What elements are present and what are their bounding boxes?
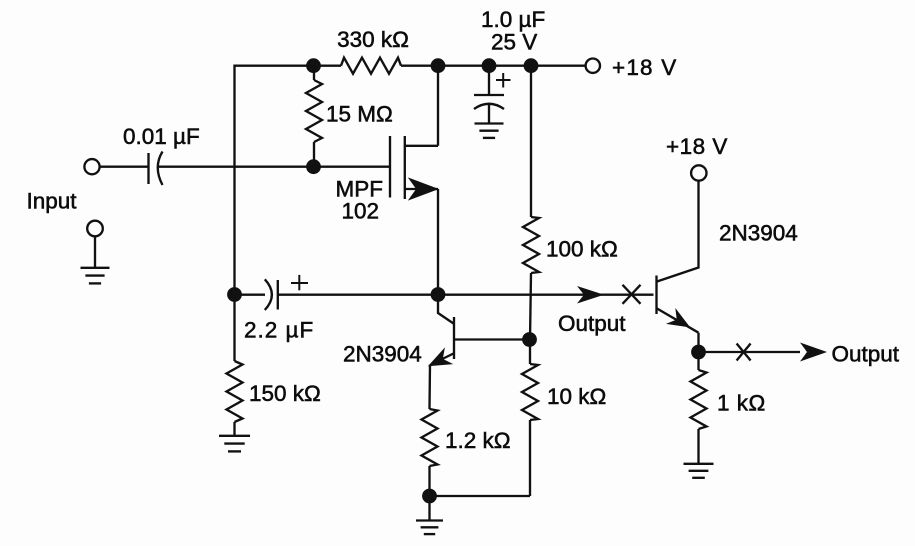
svg-text:10 kΩ: 10 kΩ [547, 384, 606, 409]
svg-text:1 kΩ: 1 kΩ [717, 391, 766, 416]
resistor 100 kΩ [523, 66, 539, 340]
label Output (first) [558, 311, 626, 336]
svg-text:150 kΩ: 150 kΩ [249, 381, 321, 406]
plus sign (2.2 µF polarity) [291, 275, 308, 290]
wire C1 to JFET gate [159, 166, 390, 168]
capacitor 1.0 µF 25 V (bypass) [474, 66, 504, 124]
label +18 V (top) [612, 55, 677, 80]
svg-text:2N3904: 2N3904 [343, 342, 422, 367]
wire bottom node (1.2k to 10k) [430, 495, 531, 497]
svg-text:330 kΩ: 330 kΩ [337, 27, 409, 52]
main output wire (y 295) [278, 294, 654, 296]
resistor 150 kΩ [227, 295, 243, 436]
wire JFET source down to node [437, 189, 439, 295]
resistor 10 kΩ [522, 340, 538, 497]
svg-text:Output: Output [832, 342, 900, 367]
capacitor 2.2 µF [241, 279, 278, 310]
transistor Q2 2N3904 [657, 181, 699, 352]
transistor Q1 2N3904 [431, 295, 528, 365]
+18V terminal (top) [586, 58, 600, 72]
node dot Q2 emitter [691, 345, 706, 360]
label 2.2 µF [244, 318, 314, 343]
JFET MPF102 [390, 136, 438, 199]
label 100 kΩ [546, 237, 618, 262]
svg-text:0.01 µF: 0.01 µF [123, 124, 200, 149]
input ground terminal [87, 221, 103, 268]
label 330 kΩ [337, 27, 409, 52]
node dot source/output [431, 287, 446, 302]
ground (bypass cap) [475, 124, 504, 138]
input terminal [84, 159, 99, 174]
svg-text:15 MΩ: 15 MΩ [326, 102, 393, 127]
ground (bottom node) [416, 496, 443, 534]
wire input to C1 [100, 166, 149, 168]
output arrow 1 [577, 286, 604, 304]
label 25 V [491, 30, 537, 55]
X mark 1 [623, 285, 641, 304]
output arrow 2 [800, 343, 827, 362]
capacitor 0.01 µF [149, 152, 163, 186]
svg-text:Output: Output [558, 311, 626, 336]
label 1 kΩ [717, 391, 766, 416]
wire JFET drain to rail [437, 66, 439, 146]
svg-text:102: 102 [341, 199, 379, 224]
label 10 kΩ [547, 384, 606, 409]
label MPF 102 [336, 177, 384, 224]
top +18V rail wire [235, 66, 586, 295]
+18V terminal (right) [691, 165, 706, 180]
svg-text:2.2 µF: 2.2 µF [244, 318, 314, 343]
svg-text:1.2 kΩ: 1.2 kΩ [445, 428, 511, 453]
node dot rail/15M top [306, 58, 321, 73]
node dot gate/15M bottom [306, 159, 321, 174]
label 0.01 µF [123, 124, 200, 149]
svg-text:1.0 µF: 1.0 µF [481, 7, 545, 32]
wire emitter node to output 2 [699, 351, 801, 353]
resistor 1.2 kΩ [422, 365, 438, 497]
label 1.0 µF [481, 7, 545, 32]
node dot rail/JFET drain [431, 58, 446, 73]
node dot Q1 base / divider [522, 332, 537, 347]
ground (150k) [219, 436, 250, 452]
X mark 2 [737, 344, 751, 361]
node dot rail/100k [524, 58, 539, 73]
svg-text:25 V: 25 V [491, 30, 537, 55]
svg-text:2N3904: 2N3904 [719, 221, 798, 246]
svg-text:100 kΩ: 100 kΩ [546, 237, 618, 262]
svg-text:Input: Input [27, 189, 78, 214]
label 2N3904 (Q2) [719, 221, 798, 246]
resistor 330 kΩ [341, 58, 401, 74]
svg-text:+18 V: +18 V [612, 55, 677, 80]
svg-text:+18 V: +18 V [666, 134, 728, 159]
resistor 15 MΩ [306, 66, 322, 167]
node dot 2.2µF / 150k [227, 287, 242, 302]
ground (input) [81, 268, 110, 284]
label Output (second) [832, 342, 900, 367]
label 150 kΩ [249, 381, 321, 406]
resistor 1 kΩ [691, 352, 707, 464]
node dot emitter resistor bottom [422, 489, 437, 504]
plus sign (1.0 µF polarity) [496, 73, 511, 88]
label +18 V (right) [666, 134, 728, 159]
label 15 MΩ [326, 102, 393, 127]
label Input [27, 189, 78, 214]
ground (1k) [684, 464, 714, 478]
label 2N3904 (Q1) [343, 342, 422, 367]
node dot rail/bypass cap [482, 58, 497, 73]
label 1.2 kΩ [445, 428, 511, 453]
